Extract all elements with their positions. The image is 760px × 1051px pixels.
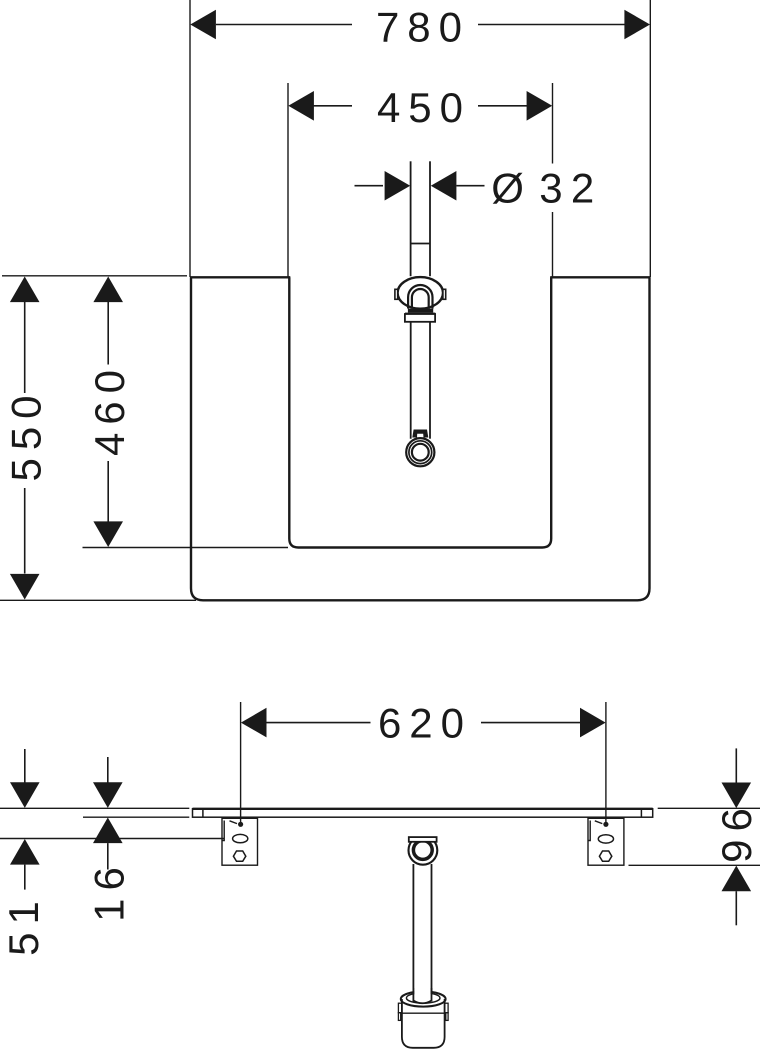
bracket left hex hole <box>233 851 245 861</box>
dimension 550 text <box>2 387 49 481</box>
svg-text:550: 550 <box>2 387 49 481</box>
dimension 450 arrow left <box>288 91 314 121</box>
svg-text:16: 16 <box>85 859 132 922</box>
dimension O32 arrow left <box>385 171 411 201</box>
dimension 780 arrow left <box>190 10 216 40</box>
dimension 450 text <box>377 84 471 131</box>
basin top edge left <box>190 276 290 278</box>
dimension 51 shaft bottom <box>24 865 26 890</box>
dimension 550 arrow down <box>10 574 40 600</box>
dimension 96 arrow up <box>722 866 752 892</box>
svg-text:51: 51 <box>0 893 47 956</box>
dimension 550 top reference line <box>2 275 187 277</box>
dimension 550 shaft upper <box>24 302 26 393</box>
dimension 96 arrow down <box>722 783 752 809</box>
dimension 16 arrow up <box>93 818 123 844</box>
dimension 620 extension line right <box>605 702 607 823</box>
drain flange side tab left <box>395 289 398 299</box>
level line B panel bottom left <box>83 816 189 818</box>
dimension 51 arrow down <box>10 782 40 808</box>
bracket right hex hole <box>599 851 611 861</box>
dimension 780 extension line left <box>189 0 191 277</box>
dimension 51 arrow up <box>10 839 40 865</box>
dimension 780 arrow right <box>624 10 650 40</box>
dimension 450 line <box>314 105 528 107</box>
svg-text:460: 460 <box>86 362 133 456</box>
trap cup rim outer <box>401 991 446 1006</box>
drain outlet middle circle <box>409 441 432 464</box>
trap ring outer <box>409 836 438 865</box>
basin inner U outline <box>289 277 551 547</box>
drain flange arch outer <box>408 285 432 309</box>
svg-text:96: 96 <box>713 800 760 863</box>
dimension 460 shaft upper <box>107 302 109 365</box>
level line D bracket bottom right <box>629 864 760 866</box>
dimension 460 text <box>86 362 133 456</box>
drain tailpipe <box>411 322 430 439</box>
dimension 460 arrow up <box>93 277 123 303</box>
level line C bracket hole axis <box>0 838 224 840</box>
basin outer outline <box>191 277 650 600</box>
dimension 460 shaft lower <box>107 461 109 522</box>
dimension O32 leader left <box>355 185 384 187</box>
drain outlet inner circle <box>412 444 429 461</box>
trap tube over rim <box>414 988 430 1001</box>
panel slab <box>193 809 653 817</box>
bracket right body <box>588 818 624 865</box>
dimension 620 arrow left <box>241 708 267 738</box>
trap cup joint line <box>402 1012 445 1014</box>
bracket left screw tick <box>230 821 238 824</box>
dimension 51 text <box>0 893 47 956</box>
level line A panel top left <box>0 807 189 809</box>
dimension 96 shaft bottom <box>735 891 737 925</box>
dimension 550 arrow up <box>10 277 40 303</box>
svg-text:780: 780 <box>376 3 470 50</box>
svg-text:Ø32: Ø32 <box>491 165 602 212</box>
dimension O32 text <box>491 165 602 212</box>
drain flange nut band <box>408 309 433 313</box>
dimension 16 shaft top <box>107 757 109 783</box>
dimension 96 shaft top <box>735 748 737 782</box>
drain flange side tab right <box>443 289 446 299</box>
trap tube lines over rim <box>413 988 431 1003</box>
panel left cap divider <box>202 809 204 817</box>
bracket right screw dot <box>603 822 608 827</box>
dimension 460 bottom reference line <box>83 547 289 549</box>
drain flange ellipse <box>398 277 443 309</box>
bracket left oval hole <box>233 834 248 842</box>
trap ring inner <box>413 841 432 860</box>
panel right cap divider <box>640 809 642 817</box>
trap cup body <box>402 999 445 1048</box>
trap cap <box>409 837 437 842</box>
trap tube <box>413 864 431 993</box>
dimension 16 arrow down <box>93 782 123 808</box>
dimension 450 extension line right <box>552 83 554 277</box>
svg-text:450: 450 <box>377 84 471 131</box>
bracket right oval hole <box>598 835 613 843</box>
drain collar <box>405 314 435 322</box>
dimension O32 leader right <box>456 185 484 187</box>
dimension 620 text <box>378 700 472 747</box>
dimension 780 extension line right <box>649 0 651 277</box>
drain collar top band <box>405 313 435 316</box>
bracket right hook <box>588 821 590 841</box>
dimension O32 arrow right <box>431 171 457 201</box>
drain pipe top view <box>411 161 430 276</box>
dimension 460 arrow down <box>93 521 123 547</box>
drain flange arch inner <box>412 289 429 309</box>
drain outlet outer circle <box>406 438 434 466</box>
dimension 450 arrow right <box>527 91 553 121</box>
dimension 620 extension line left <box>240 702 242 823</box>
trap cup lug left <box>398 1003 402 1020</box>
bracket left hook <box>222 821 224 841</box>
dimension 780 line <box>216 24 625 26</box>
dimension 550 bottom reference line <box>0 599 196 601</box>
trap cap mask <box>406 834 439 842</box>
dimension 16 text <box>85 859 132 922</box>
trap cup rim inner <box>406 993 440 1003</box>
basin top edge right <box>550 276 650 278</box>
panel top edge thick <box>193 808 653 810</box>
svg-text:620: 620 <box>378 700 472 747</box>
bracket left body <box>222 818 258 865</box>
dimension 96 text <box>713 800 760 863</box>
trap cup lug right <box>445 1003 449 1020</box>
dimension 780 text <box>376 3 470 50</box>
level line A panel top right <box>658 807 760 809</box>
bracket right screw tick <box>595 821 603 824</box>
drain neck trapezoid <box>412 430 428 438</box>
dimension 450 extension line left <box>287 83 289 277</box>
dimension 550 shaft lower <box>24 488 26 574</box>
dimension 620 line <box>266 722 580 724</box>
dimension 16 shaft bottom <box>107 843 109 869</box>
dimension 620 arrow right <box>580 708 606 738</box>
dimension 51 shaft top <box>24 749 26 783</box>
bracket left screw dot <box>238 822 243 827</box>
